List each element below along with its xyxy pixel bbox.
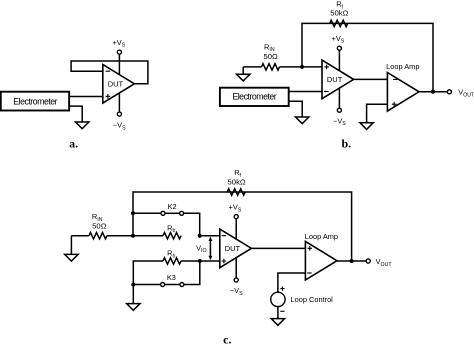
inverting input marker Loop Amp (b) <box>393 78 398 80</box>
svg-text:+VS: +VS <box>229 203 242 214</box>
inverting input marker DUT (b) <box>324 91 329 93</box>
resistor Rb upper (c) <box>163 233 181 239</box>
op-amp Loop Amp (b) <box>387 73 419 112</box>
wire Rin to node (b) <box>279 66 322 68</box>
electrometer box (b) <box>220 88 289 106</box>
non-inverting input marker Loop Amp (c) <box>308 246 313 251</box>
svg-text:DUT: DUT <box>225 244 241 253</box>
svg-text:c.: c. <box>223 332 231 345</box>
svg-text:DUT: DUT <box>327 75 343 84</box>
wire lower branch left (c) <box>133 261 163 304</box>
switch K3 left contact (c) <box>161 283 165 287</box>
terminal -Vs (c) <box>234 278 238 282</box>
svg-text:VIO: VIO <box>196 243 206 254</box>
terminal +Vs (a) <box>117 50 121 54</box>
resistor Rf (b) <box>330 20 348 26</box>
svg-text:b.: b. <box>341 137 351 151</box>
switch K3 right contact (c) <box>180 283 184 287</box>
wire DUT output to Loop Amp (b) <box>354 78 388 80</box>
wire ground to Rin (b) <box>243 66 261 68</box>
wire K2 contact bar (c) <box>165 212 180 214</box>
op-amp DUT (b) <box>322 60 354 99</box>
non-inverting input marker DUT (b) <box>324 65 329 70</box>
terminal +Vs (c) <box>234 215 238 219</box>
resistor Rin (b) <box>262 64 280 70</box>
resistor Rin (c) <box>89 233 107 239</box>
svg-text:Electrometer: Electrometer <box>13 96 57 106</box>
wire Loop Amp + to ground (b) <box>367 104 388 123</box>
inverting input marker (a) <box>106 70 111 72</box>
switch K2 right contact (c) <box>180 211 184 215</box>
inverting input marker DUT (c) <box>222 235 227 237</box>
svg-text:Electrometer: Electrometer <box>232 92 276 102</box>
loop control source (c) <box>271 292 285 306</box>
svg-text:K2: K2 <box>168 202 177 211</box>
svg-text:−VS: −VS <box>333 116 346 127</box>
ground below electrometer (b) <box>301 116 303 117</box>
svg-text:Rb: Rb <box>167 249 175 260</box>
ground lower branch (c) <box>132 302 134 304</box>
offset voltage Vio arrow (c) <box>209 240 211 258</box>
terminal -Vs (a) <box>117 112 121 116</box>
svg-text:K3: K3 <box>167 273 176 282</box>
resistor Rb lower (c) <box>163 258 181 264</box>
ground at Rin (b) <box>242 67 244 74</box>
wire K2 to node (c) <box>184 213 200 235</box>
svg-text:50Ω: 50Ω <box>263 52 278 61</box>
feedback top wire (c) <box>133 192 352 261</box>
non-inverting input marker DUT (c) <box>222 259 227 264</box>
ground at Rin (c) <box>70 236 72 255</box>
svg-text:VOUT: VOUT <box>376 257 393 268</box>
power rail +Vs -Vs (b) <box>338 50 340 108</box>
wire output (b) <box>419 91 447 93</box>
svg-text:Loop Amp: Loop Amp <box>305 232 338 241</box>
electrometer box (a) <box>1 92 69 111</box>
switch K2 left contact (c) <box>161 211 165 215</box>
wire DUT output to Loop Amp (c) <box>251 247 305 249</box>
svg-text:Loop Control: Loop Control <box>291 295 334 304</box>
wire node to - input (c) <box>200 235 220 237</box>
ground below electrometer (a) <box>81 121 83 122</box>
loop control - marker (c) <box>280 310 284 312</box>
svg-text:−VS: −VS <box>230 286 243 297</box>
non-inverting input marker (a) <box>106 94 111 99</box>
loop control + marker (c) <box>280 287 284 291</box>
junction K2 branch right (c) <box>198 234 202 238</box>
svg-text:+VS: +VS <box>112 38 125 49</box>
terminal Vout (b) <box>447 90 451 94</box>
svg-text:+VS: +VS <box>332 34 345 45</box>
junction K3 branch left (c) <box>131 283 135 287</box>
junction K2 branch left (c) <box>131 211 135 215</box>
svg-text:DUT: DUT <box>108 79 124 88</box>
ground at Loop Amp + (b) <box>366 121 368 123</box>
junction feedback/Rin (c) <box>131 234 135 238</box>
wire electrometer to - input (b) <box>289 91 322 93</box>
wire loop control to ground (c) <box>277 307 279 319</box>
svg-text:−VS: −VS <box>113 121 126 132</box>
wire K3 to node (c) <box>184 261 200 285</box>
svg-text:VOUT: VOUT <box>458 88 474 99</box>
svg-text:50Ω: 50Ω <box>92 222 107 231</box>
wire ground to Rin (c) <box>71 235 89 237</box>
power rail +Vs -Vs (c) <box>235 219 237 278</box>
terminal Vout (c) <box>366 259 370 263</box>
resistor Rf (c) <box>227 189 245 195</box>
inverting input marker Loop Amp (c) <box>307 272 312 274</box>
wire node to K2 (c) <box>133 212 161 214</box>
ground at loop control (c) <box>277 317 279 319</box>
svg-text:50kΩ: 50kΩ <box>228 178 246 187</box>
svg-text:a.: a. <box>69 137 78 151</box>
op-amp Loop Amp (c) <box>305 241 337 280</box>
terminal -Vs (b) <box>337 108 341 112</box>
wire +Vs to -Vs rail (a) <box>118 54 120 112</box>
wire output (c) <box>337 260 366 262</box>
wire K3 contact bar (c) <box>165 284 180 286</box>
wire Rb lower to node (c) <box>181 260 220 262</box>
wire electrometer to + input (a) <box>69 96 103 98</box>
non-inverting input marker Loop Amp (b) <box>392 102 397 107</box>
wire electrometer to ground (b) <box>289 101 303 117</box>
wire node to K3 (c) <box>133 284 160 286</box>
junction output/feedback (b) <box>431 90 435 94</box>
terminal +Vs (b) <box>337 46 341 50</box>
svg-text:50kΩ: 50kΩ <box>330 9 348 18</box>
junction K3 branch right (c) <box>198 259 202 263</box>
wire Rin to node (c) <box>107 235 163 237</box>
feedback top wire (b) <box>302 23 433 91</box>
wire electrometer to ground (a) <box>69 106 82 122</box>
wire Loop Amp - to loop control (c) <box>278 273 306 292</box>
svg-text:Loop Amp: Loop Amp <box>386 62 419 71</box>
op-amp DUT (c) <box>220 229 252 268</box>
junction output/feedback (c) <box>350 259 354 263</box>
op-amp DUT (a) <box>103 65 135 104</box>
junction Rin/feedback node (b) <box>300 65 304 69</box>
feedback loop wire (a) <box>71 61 148 84</box>
